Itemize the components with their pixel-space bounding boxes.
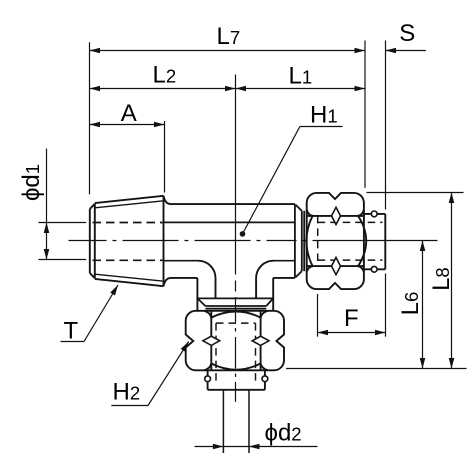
leader T (61, 285, 119, 342)
male taper thread T outline (90, 196, 164, 286)
svg-text:L6: L6 (397, 292, 424, 316)
branch fillets (198, 261, 273, 298)
nut H1 hidden thread dashed (318, 216, 383, 266)
extension line left (89, 42, 91, 194)
extension line bottom right (286, 368, 466, 370)
bottom tube lines (223, 390, 249, 453)
phi-d2 arrows (213, 444, 260, 450)
extension line nut right (364, 41, 366, 188)
svg-text:L1: L1 (289, 62, 313, 89)
svg-text:H1: H1 (310, 102, 338, 129)
svg-text:L2: L2 (153, 62, 177, 89)
bore lines through body (164, 222, 295, 260)
svg-text:T: T (64, 318, 79, 345)
dimension L7 (90, 50, 366, 52)
dimension L6 (422, 241, 424, 369)
svg-text:ϕd1: ϕd1 (18, 164, 45, 201)
body outline (171, 204, 295, 311)
nut H2 hidden thread dashed (216, 323, 256, 385)
svg-text:L7: L7 (217, 23, 241, 50)
right collar (295, 204, 304, 278)
dimension phi-d2 (195, 446, 318, 448)
thread root lines (95, 201, 164, 281)
dimension L8 (451, 193, 453, 369)
bottom stub circles (205, 376, 268, 382)
hidden bore dashed in thread (93, 223, 164, 261)
leader H1 dot (240, 231, 246, 237)
nut H2 (bottom compression nut) (186, 311, 284, 371)
leader H1 (243, 127, 343, 234)
nut H1 (right compression nut) (306, 193, 366, 289)
leader H2 (111, 342, 188, 406)
dimension A (90, 124, 165, 126)
body neck fillets (164, 196, 172, 286)
svg-text:F: F (344, 305, 359, 332)
dimension F (318, 294, 386, 337)
horizontal centerline (69, 240, 438, 242)
vertical branch centerline (235, 75, 237, 402)
svg-text:L8: L8 (428, 267, 455, 291)
extension line tube end (385, 41, 387, 337)
extension line nut top right (367, 192, 464, 194)
dimension L1 (236, 88, 366, 90)
bottom tube stub (208, 370, 265, 390)
svg-text:H2: H2 (113, 378, 141, 405)
svg-text:ϕd2: ϕd2 (265, 419, 302, 446)
nut H2 diamonds (203, 336, 269, 345)
svg-text:S: S (399, 20, 415, 47)
dimension S tail (386, 50, 426, 52)
dimension phi-d1 (38, 149, 86, 260)
nut H1 diamonds (332, 207, 341, 274)
svg-text:A: A (121, 100, 137, 127)
extension line A right (164, 121, 166, 193)
right tube stub (364, 214, 385, 269)
dimension L2 (90, 88, 236, 90)
right stub circles (371, 211, 377, 272)
branch flange (197, 298, 273, 308)
